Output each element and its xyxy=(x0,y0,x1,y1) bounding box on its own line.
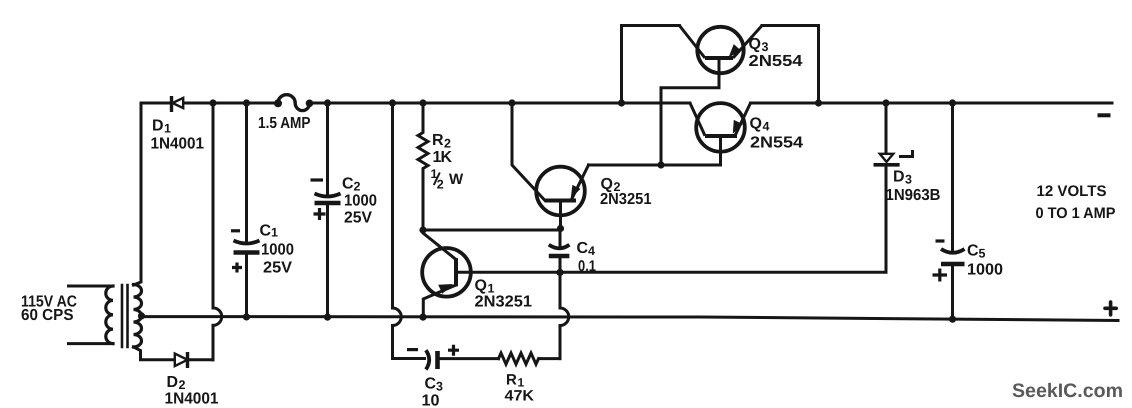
svg-text:3: 3 xyxy=(905,173,912,187)
svg-text:1: 1 xyxy=(164,122,171,136)
svg-text:5: 5 xyxy=(979,247,986,261)
svg-text:Q: Q xyxy=(475,278,487,295)
svg-text:2N3251: 2N3251 xyxy=(600,191,652,208)
svg-text:D: D xyxy=(152,118,164,135)
svg-text:C: C xyxy=(425,376,437,393)
svg-text:2: 2 xyxy=(354,180,361,194)
svg-text:W: W xyxy=(449,171,464,188)
svg-text:4: 4 xyxy=(588,244,595,258)
svg-text:25V: 25V xyxy=(344,210,372,227)
svg-text:1N4001: 1N4001 xyxy=(165,391,219,408)
svg-text:Q: Q xyxy=(749,36,761,53)
svg-text:1.5 AMP: 1.5 AMP xyxy=(258,115,311,132)
svg-text:60 CPS: 60 CPS xyxy=(21,307,74,324)
svg-text:SeekIC.com: SeekIC.com xyxy=(1012,380,1123,402)
svg-text:0 TO 1 AMP: 0 TO 1 AMP xyxy=(1036,205,1116,222)
svg-text:R: R xyxy=(432,132,444,149)
svg-text:Q: Q xyxy=(750,116,762,133)
svg-text:3: 3 xyxy=(762,40,769,54)
svg-text:12 VOLTS: 12 VOLTS xyxy=(1037,183,1107,200)
svg-text:25V: 25V xyxy=(263,260,292,277)
svg-text:C: C xyxy=(577,240,589,257)
svg-text:0.1: 0.1 xyxy=(578,258,596,275)
svg-text:1: 1 xyxy=(271,226,278,240)
svg-text:10: 10 xyxy=(422,393,440,408)
svg-text:2N554: 2N554 xyxy=(750,135,803,152)
svg-text:47K: 47K xyxy=(505,388,535,405)
svg-text:D: D xyxy=(893,169,905,186)
svg-text:D: D xyxy=(167,374,179,391)
svg-text:1N4001: 1N4001 xyxy=(151,136,205,153)
svg-text:1000: 1000 xyxy=(967,262,1003,279)
svg-text:R: R xyxy=(506,372,517,389)
svg-text:1000: 1000 xyxy=(261,242,294,259)
svg-text:C: C xyxy=(342,176,354,193)
svg-text:2: 2 xyxy=(437,178,444,192)
svg-text:4: 4 xyxy=(763,120,770,134)
svg-text:2N3251: 2N3251 xyxy=(475,294,533,311)
svg-text:C: C xyxy=(260,223,272,240)
svg-text:C: C xyxy=(967,243,979,260)
svg-text:2N554: 2N554 xyxy=(749,53,803,70)
svg-text:1N963B: 1N963B xyxy=(886,187,941,204)
svg-text:K: K xyxy=(441,149,453,166)
svg-text:1000: 1000 xyxy=(344,193,377,210)
svg-text:3: 3 xyxy=(436,380,443,394)
